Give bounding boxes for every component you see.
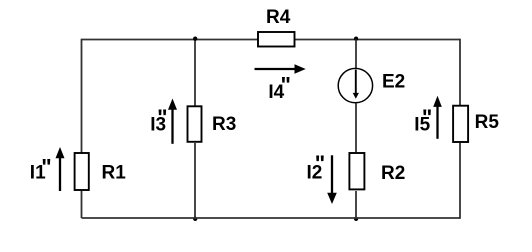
wire R3 branch upper bbox=[194, 40, 196, 107]
voltage source E2 circle bbox=[338, 68, 372, 102]
wire R3 branch lower bbox=[194, 143, 196, 218]
svg-text:R2: R2 bbox=[381, 163, 405, 184]
current arrow I4 bbox=[255, 68, 297, 70]
resistor R4 bbox=[258, 32, 295, 47]
junction dot: R2 branch bottom bbox=[354, 217, 358, 221]
wire bottom segment: R3 junction to R2 junction bbox=[195, 217, 356, 219]
wire top segment: R3 junction to R4 left lead bbox=[195, 39, 258, 41]
svg-text:R4: R4 bbox=[266, 7, 291, 28]
wire right branch upper bbox=[459, 39, 461, 105]
wire top segment: node A to R3 top junction bbox=[82, 39, 196, 41]
svg-text:": " bbox=[281, 72, 291, 97]
junction dot: R3 branch bottom bbox=[193, 217, 197, 221]
svg-text:": " bbox=[422, 105, 432, 130]
wire left branch upper bbox=[81, 39, 83, 153]
svg-text:": " bbox=[157, 105, 167, 130]
junction dot: E2 branch top bbox=[354, 37, 358, 41]
wire left branch lower bbox=[81, 191, 83, 218]
wire E2 to R2 bbox=[355, 104, 357, 153]
current arrow I3 bbox=[171, 108, 173, 144]
resistor R1 bbox=[75, 153, 89, 190]
resistor R5 bbox=[453, 106, 468, 142]
wire E2 branch upper bbox=[355, 40, 357, 69]
resistor R2 bbox=[349, 153, 364, 189]
svg-text:R3: R3 bbox=[212, 114, 236, 135]
resistor R3 bbox=[188, 106, 202, 142]
svg-text:R1: R1 bbox=[102, 163, 127, 184]
wire bottom segment: R2 junction to right corner bbox=[356, 217, 460, 219]
wire top segment: R4 right lead to E2 top junction bbox=[295, 39, 357, 41]
svg-text:R5: R5 bbox=[475, 112, 500, 133]
current arrow I5 bbox=[436, 105, 438, 139]
wire right branch lower bbox=[459, 143, 461, 219]
wire top segment: E2 junction to top-right corner bbox=[356, 39, 460, 41]
current arrow I2 bbox=[331, 155, 333, 193]
wire bottom segment: left corner to R3 junction bbox=[82, 217, 196, 219]
svg-text:": " bbox=[41, 155, 51, 180]
svg-text:": " bbox=[315, 151, 325, 176]
wire R2 lower bbox=[355, 191, 357, 218]
E2 internal arrow bbox=[355, 70, 357, 94]
junction dot: R3 branch top bbox=[193, 37, 197, 41]
svg-text:E2: E2 bbox=[382, 71, 405, 92]
current arrow I1 bbox=[59, 157, 61, 192]
